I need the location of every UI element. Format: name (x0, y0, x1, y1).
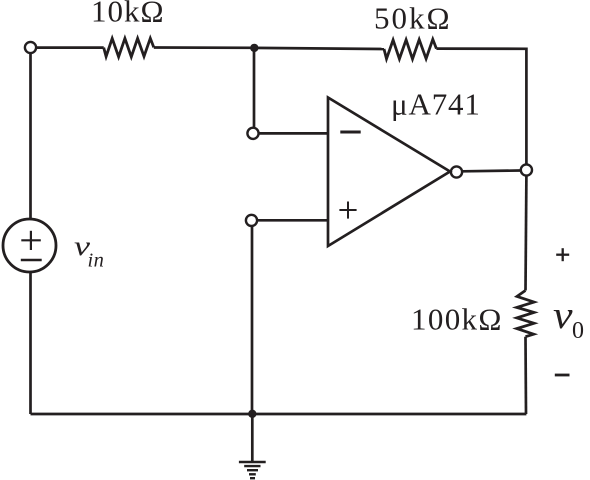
wire: source bottom to bottom-left corner (29, 272, 32, 414)
ground symbol (239, 462, 266, 478)
wire: ground stem (251, 414, 254, 461)
wire: junction A down to inverting input node (253, 48, 256, 128)
wire: output node to right rail node (463, 169, 520, 173)
resistor R2 50kΩ (zigzag) (384, 39, 436, 59)
node: input terminal (open circle, top-left) (25, 42, 36, 53)
wire: input terminal to R1 left (37, 46, 104, 49)
svg-text:10kΩ: 10kΩ (91, 0, 165, 29)
junction A (filled dot, top middle) (250, 44, 258, 52)
op-amp U1 plus input sign (339, 202, 356, 219)
node: op-amp output (open circle at apex) (451, 166, 462, 177)
svg-text:50kΩ: 50kΩ (374, 1, 452, 36)
node: output/right rail junction (open circle) (521, 164, 532, 175)
node: non-inverting input (open circle) (246, 215, 257, 226)
junction B (filled dot, bottom middle) (248, 410, 256, 418)
wire: junction A to R2 left (254, 48, 384, 49)
voltage source V1 plus sign (21, 231, 41, 250)
svg-text:in: in (88, 250, 105, 272)
voltage source V1 (circle) (3, 219, 56, 272)
resistor R3 100kΩ (vertical zigzag) (517, 291, 534, 337)
wire: bottom rail (31, 413, 527, 416)
wire: R3 bottom to bottom-right corner (524, 337, 527, 414)
label: output polarity plus (556, 248, 569, 261)
node: inverting input (open circle) (247, 128, 258, 139)
svg-text:0: 0 (572, 318, 584, 344)
op-amp U1 triangle (328, 98, 450, 247)
voltage source V1 minus sign (21, 259, 42, 262)
wire: R1 right to junction A (154, 46, 254, 49)
wire: R2 right to top-right corner then down to output node (436, 49, 526, 164)
svg-text:μA741: μA741 (391, 87, 481, 122)
wire: non-inverting node down to bottom rail (251, 227, 254, 414)
wire: non-inverting node to op-amp plus input (258, 219, 328, 222)
svg-text:100kΩ: 100kΩ (411, 302, 503, 337)
wire: inverting node to op-amp minus input (260, 132, 329, 135)
label: output polarity minus (555, 374, 570, 377)
wire: right rail from output node down to R3 top (524, 177, 528, 291)
svg-text:v: v (553, 294, 573, 337)
op-amp U1 minus input sign (340, 131, 360, 134)
wire: input terminal down to source top (29, 54, 32, 220)
resistor R1 10kΩ (zigzag) (104, 38, 154, 57)
